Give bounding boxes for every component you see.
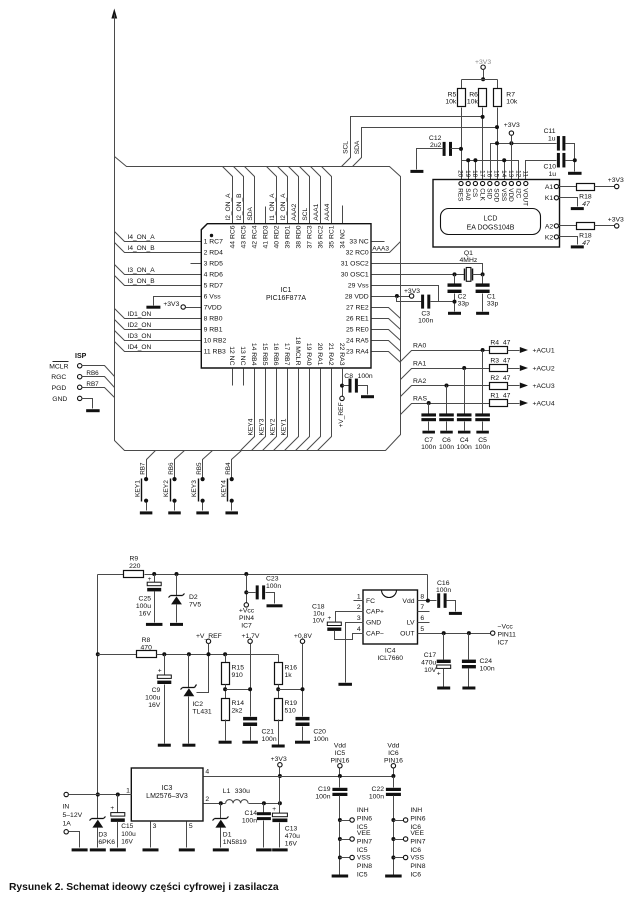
svg-text:100n: 100n bbox=[262, 736, 277, 743]
svg-text:ID4_ON: ID4_ON bbox=[128, 344, 152, 351]
svg-text:C6: C6 bbox=[442, 437, 451, 444]
resistor R2 47 bbox=[490, 383, 508, 390]
wire IC4 pin4 CAP- to C18 minus bbox=[335, 631, 364, 640]
svg-text:R18: R18 bbox=[579, 193, 592, 200]
svg-text:330u: 330u bbox=[235, 788, 250, 795]
svg-text:AAA3: AAA3 bbox=[372, 246, 389, 253]
svg-text:35 RC1: 35 RC1 bbox=[329, 225, 336, 248]
svg-text:27 RE2: 27 RE2 bbox=[346, 304, 369, 311]
svg-text:7: 7 bbox=[420, 604, 424, 611]
svg-text:R4: R4 bbox=[490, 339, 499, 346]
svg-text:220: 220 bbox=[129, 563, 141, 570]
signal arrow +ACU1 bbox=[520, 347, 528, 353]
wire pin 15 to bottom rail bbox=[252, 369, 266, 451]
LCD pin 18 CS bbox=[473, 181, 477, 185]
wire IC3 pin2 (switch node) bbox=[204, 803, 226, 805]
wire C22 to ground with taps bbox=[393, 796, 395, 875]
svg-text:11 RB3: 11 RB3 bbox=[204, 348, 226, 355]
junction RA0/C5 bbox=[481, 348, 485, 352]
terminal IN (-) bbox=[64, 830, 68, 834]
ground at IC1 pin 6 Vss bbox=[154, 297, 202, 306]
wire pin 21 to bottom rail bbox=[318, 369, 332, 451]
svg-text:14 RB4: 14 RB4 bbox=[250, 343, 257, 366]
junction RA3/C8 bbox=[340, 384, 344, 388]
svg-text:KEY4: KEY4 bbox=[220, 480, 227, 497]
svg-text:I2_ON_A: I2_ON_A bbox=[280, 193, 287, 221]
svg-text:100n: 100n bbox=[358, 373, 373, 380]
svg-text:R19: R19 bbox=[285, 700, 298, 707]
wire IN to IC3 pin1 bbox=[69, 794, 132, 796]
svg-text:CAP+: CAP+ bbox=[366, 609, 384, 616]
svg-text:31 OSC2: 31 OSC2 bbox=[341, 260, 369, 267]
wire pin 3 RD5 stub bbox=[191, 263, 202, 265]
wire pin 19 to bottom rail bbox=[296, 369, 310, 451]
wire LCD control line (RES/SA0/CS/VSS/I2C) bbox=[462, 161, 519, 182]
junction R16/R19 (+0,8V) bbox=[278, 685, 280, 699]
wire pin 18 to bottom rail bbox=[285, 369, 299, 451]
svg-text:PIN7: PIN7 bbox=[357, 838, 372, 845]
resistor R7 10k bbox=[494, 89, 502, 107]
junction D1 bbox=[219, 801, 223, 805]
resistor R14 2k2 bbox=[222, 699, 230, 721]
wire pin 20 to bottom rail bbox=[307, 369, 321, 451]
wire: +3V3 output rail bbox=[204, 776, 394, 778]
svg-text:+ACU2: +ACU2 bbox=[533, 366, 555, 373]
svg-text:ID2_ON: ID2_ON bbox=[128, 322, 152, 329]
svg-text:5 RD7: 5 RD7 bbox=[204, 282, 223, 289]
wire pin22 RA3 to C8/+V_REF bbox=[342, 369, 344, 397]
wire IC4 pin6 LV stub bbox=[418, 622, 430, 624]
svg-text:AAA1: AAA1 bbox=[313, 203, 320, 220]
ground at IN(-) bbox=[69, 832, 80, 848]
junction VDD/C3 bbox=[395, 294, 399, 298]
zener diode D2 7V5 bbox=[175, 572, 179, 576]
capacitor C20 100n bbox=[296, 717, 310, 721]
svg-text:I4_ON_A: I4_ON_A bbox=[128, 234, 156, 241]
svg-text:44 RC6: 44 RC6 bbox=[230, 225, 237, 248]
svg-text:2: 2 bbox=[205, 796, 209, 803]
ground at ISP GND bbox=[82, 399, 93, 409]
svg-text:6PK6: 6PK6 bbox=[98, 839, 115, 846]
svg-text:LM2576–3V3: LM2576–3V3 bbox=[146, 793, 188, 800]
signal arrow +ACU4 bbox=[520, 400, 528, 406]
svg-text:I1_ON_A: I1_ON_A bbox=[269, 193, 276, 221]
svg-text:Rysunek 2. Schemat ideowy częś: Rysunek 2. Schemat ideowy części cyfrowe… bbox=[9, 882, 279, 893]
svg-text:470u: 470u bbox=[285, 833, 300, 840]
svg-text:23 RA4: 23 RA4 bbox=[346, 348, 369, 355]
ground at IC3 pin5 bbox=[186, 822, 188, 848]
signal arrow +ACU2 bbox=[520, 365, 528, 371]
svg-text:100n: 100n bbox=[266, 583, 281, 590]
svg-text:100n: 100n bbox=[480, 666, 495, 673]
signal arrow +ACU3 bbox=[520, 383, 528, 389]
resistor R18 47 (backlight A2) bbox=[559, 225, 577, 227]
ground at IC3 pin3 bbox=[150, 822, 152, 848]
LCD pin 13 VDD bbox=[509, 181, 513, 185]
wire IC4 pin8 Vdd to +Vcc rail bbox=[418, 600, 437, 602]
svg-text:Vdd: Vdd bbox=[334, 743, 346, 750]
capacitor C17 470u 10V bbox=[442, 631, 446, 635]
wire IC4 pin1 stub bbox=[354, 600, 364, 602]
ground at R19 bbox=[278, 720, 280, 745]
svg-text:3: 3 bbox=[153, 823, 157, 830]
svg-text:R8: R8 bbox=[142, 637, 151, 644]
wire RE2 to bus bbox=[372, 308, 401, 319]
wire RE1 to bus bbox=[372, 319, 401, 330]
svg-text:+3V3: +3V3 bbox=[271, 756, 287, 763]
svg-text:RGC: RGC bbox=[51, 374, 66, 381]
junction SDA/SOD bbox=[495, 141, 499, 145]
svg-text:I3_ON_A: I3_ON_A bbox=[128, 267, 156, 274]
svg-text:10V: 10V bbox=[424, 667, 437, 674]
terminal GND bbox=[78, 396, 82, 400]
svg-text:PIN6: PIN6 bbox=[410, 815, 425, 822]
junction RA2/C6 bbox=[445, 384, 449, 388]
LCD pin 14 VSS bbox=[502, 181, 506, 185]
wire IC4 pin5 OUT to -Vcc bbox=[418, 633, 491, 635]
svg-text:4MHz: 4MHz bbox=[460, 257, 478, 264]
wire pin 33 NC stub bbox=[372, 241, 385, 243]
wire I4_ON_B bbox=[115, 243, 202, 253]
svg-text:+Vcc: +Vcc bbox=[239, 608, 255, 615]
svg-text:C3: C3 bbox=[421, 311, 430, 318]
svg-text:C16: C16 bbox=[437, 580, 450, 587]
svg-text:AAA4: AAA4 bbox=[324, 203, 331, 220]
wire ID4_ON bbox=[115, 342, 202, 352]
wire I3_ON_B bbox=[115, 276, 202, 286]
svg-text:SDA: SDA bbox=[247, 206, 254, 220]
svg-text:PIC16F877A: PIC16F877A bbox=[266, 295, 306, 302]
svg-text:R7: R7 bbox=[506, 91, 515, 98]
svg-text:R9: R9 bbox=[129, 555, 138, 562]
svg-text:C25: C25 bbox=[139, 595, 152, 602]
resistor R15 910 bbox=[223, 652, 227, 656]
junction VDD/C11 bbox=[509, 141, 513, 145]
svg-text:D1: D1 bbox=[223, 832, 232, 839]
svg-text:100u: 100u bbox=[145, 695, 160, 702]
svg-text:2u2: 2u2 bbox=[430, 142, 442, 149]
svg-text:25 RE0: 25 RE0 bbox=[346, 326, 369, 333]
wire IC4 pin7 stub bbox=[418, 611, 430, 613]
wire SDA from bus to pull-up/LCD SID-SOD bbox=[353, 128, 498, 167]
schottky diode D1 1N5819 bbox=[220, 804, 222, 819]
svg-text:5–12V: 5–12V bbox=[63, 812, 83, 819]
shunt regulator IC2 TL431 bbox=[187, 652, 191, 656]
wire +V_REF to rail and TL431 ref bbox=[197, 644, 209, 693]
svg-text:C14: C14 bbox=[245, 810, 258, 817]
svg-text:11: 11 bbox=[522, 171, 529, 178]
svg-text:100n: 100n bbox=[457, 444, 472, 451]
svg-text:C13: C13 bbox=[285, 825, 298, 832]
svg-text:42 RC4: 42 RC4 bbox=[252, 225, 259, 248]
capacitor C3 100n bbox=[421, 295, 424, 309]
terminal +3V3 (LCD VDD) bbox=[509, 131, 513, 135]
wire OSC2 to crystal bbox=[372, 264, 483, 275]
wire IC4 pin2 CAP+ to C18 bbox=[336, 612, 364, 622]
capacitor C16 100n bbox=[437, 593, 440, 608]
svg-text:INH: INH bbox=[410, 807, 422, 814]
resistor R9 220 bbox=[98, 574, 124, 576]
junction rail/IC5 bbox=[338, 774, 342, 778]
svg-text:17 RB7: 17 RB7 bbox=[283, 343, 290, 366]
wire ID3_ON bbox=[115, 331, 202, 341]
wire pin 39 bbox=[278, 167, 288, 224]
svg-text:16V: 16V bbox=[148, 702, 161, 709]
svg-text:+ACU3: +ACU3 bbox=[533, 383, 555, 390]
wire pin 43 bbox=[234, 167, 244, 224]
svg-text:6: 6 bbox=[420, 615, 424, 622]
svg-text:12: 12 bbox=[514, 170, 521, 178]
resistor R8 470 bbox=[98, 654, 137, 656]
svg-text:19: 19 bbox=[464, 170, 471, 178]
svg-text:KEY3: KEY3 bbox=[191, 480, 198, 497]
wire RB7 (PGD) to bus bbox=[82, 388, 115, 398]
svg-text:C4: C4 bbox=[460, 437, 469, 444]
svg-text:+ACU4: +ACU4 bbox=[533, 401, 555, 408]
svg-text:C22: C22 bbox=[372, 786, 385, 793]
svg-text:1N5819: 1N5819 bbox=[223, 839, 247, 846]
svg-text:18: 18 bbox=[471, 170, 478, 178]
svg-text:VDD: VDD bbox=[507, 188, 514, 202]
wire pin 37 bbox=[300, 167, 310, 224]
capacitor C14 100n bbox=[263, 804, 265, 813]
svg-text:IC1: IC1 bbox=[281, 287, 292, 294]
svg-text:2k2: 2k2 bbox=[232, 707, 243, 714]
terminal MCLR bbox=[78, 364, 82, 368]
svg-text:100n: 100n bbox=[369, 794, 384, 801]
svg-text:GND: GND bbox=[52, 396, 67, 403]
svg-text:1: 1 bbox=[126, 787, 130, 794]
svg-text:ID3_ON: ID3_ON bbox=[128, 333, 152, 340]
svg-text:C8: C8 bbox=[344, 373, 353, 380]
svg-text:RB7: RB7 bbox=[86, 381, 99, 388]
wire C19 to ground with taps bbox=[339, 796, 341, 875]
capacitor C22 100n bbox=[393, 777, 395, 788]
svg-text:CS: CS bbox=[471, 188, 478, 197]
svg-text:36 RC2: 36 RC2 bbox=[318, 225, 325, 248]
svg-text:R16: R16 bbox=[285, 665, 298, 672]
svg-text:100n: 100n bbox=[439, 444, 454, 451]
svg-text:SA0: SA0 bbox=[464, 188, 471, 201]
wire pin12 stub bbox=[232, 369, 234, 386]
svg-text:IN: IN bbox=[63, 804, 70, 811]
resistor R4 47 bbox=[490, 347, 508, 354]
svg-text:R2: R2 bbox=[490, 375, 499, 382]
svg-text:I2_ON_B: I2_ON_B bbox=[236, 193, 243, 221]
resistor R3 47 bbox=[490, 365, 508, 372]
svg-text:510: 510 bbox=[285, 707, 297, 714]
svg-text:C21: C21 bbox=[262, 728, 275, 735]
capacitor C10 1u bbox=[557, 153, 560, 168]
svg-text:47: 47 bbox=[582, 201, 590, 208]
svg-text:910: 910 bbox=[232, 672, 244, 679]
junction C14 bbox=[262, 801, 266, 805]
wire pin 17 to bottom rail bbox=[274, 369, 288, 451]
svg-text:IC7: IC7 bbox=[241, 623, 252, 630]
svg-text:RB6: RB6 bbox=[168, 462, 175, 475]
wire RA4 to bus bbox=[372, 352, 401, 363]
terminal -Vcc PIN11 IC7 bbox=[491, 631, 495, 635]
svg-text:16V: 16V bbox=[121, 839, 133, 846]
svg-text:RAS: RAS bbox=[413, 396, 427, 403]
svg-text:21 RA2: 21 RA2 bbox=[327, 343, 334, 366]
svg-text:R5: R5 bbox=[448, 91, 457, 98]
junction C13/output bbox=[278, 801, 282, 805]
svg-text:PIN7: PIN7 bbox=[410, 838, 425, 845]
svg-text:+: + bbox=[328, 615, 332, 622]
svg-text:1u: 1u bbox=[548, 136, 556, 143]
svg-text:I4_ON_B: I4_ON_B bbox=[128, 245, 156, 252]
svg-text:SCL: SCL bbox=[343, 141, 350, 154]
junction +3V3/rail bbox=[278, 774, 282, 778]
ground at K1 bbox=[559, 198, 578, 207]
key button KEY1 bbox=[147, 451, 156, 478]
svg-text:22 RA3: 22 RA3 bbox=[338, 343, 345, 366]
svg-text:C10: C10 bbox=[544, 164, 557, 171]
svg-text:ISP: ISP bbox=[75, 353, 87, 360]
svg-text:C20: C20 bbox=[313, 728, 326, 735]
terminal +3V3 (A2) bbox=[615, 224, 619, 228]
svg-text:16 RB6: 16 RB6 bbox=[272, 343, 279, 366]
svg-text:15 RB5: 15 RB5 bbox=[261, 343, 268, 366]
svg-text:1k: 1k bbox=[285, 672, 293, 679]
svg-text:AAA2: AAA2 bbox=[291, 203, 298, 220]
svg-text:VEE: VEE bbox=[410, 830, 424, 837]
wire +3V3 to output rail bbox=[279, 768, 281, 804]
svg-text:4: 4 bbox=[357, 626, 361, 633]
svg-text:LV: LV bbox=[407, 620, 415, 627]
capacitor C11 1u bbox=[557, 136, 560, 151]
wire pin13 stub bbox=[243, 369, 245, 386]
svg-text:9 RB1: 9 RB1 bbox=[204, 326, 223, 333]
svg-text:A2: A2 bbox=[545, 223, 554, 230]
capacitor C12 2u2 bbox=[443, 142, 446, 156]
svg-text:100n: 100n bbox=[242, 817, 257, 824]
svg-text:VSS: VSS bbox=[500, 188, 507, 201]
wire OSC1 to crystal bbox=[372, 274, 465, 276]
wire Vss pin29 to ground rail bbox=[372, 286, 439, 302]
svg-text:1A: 1A bbox=[63, 821, 72, 828]
capacitor C1 33p bbox=[482, 275, 484, 284]
wire pin 44 bbox=[223, 167, 233, 224]
+3V3 terminal at IC1 pin 7 VDD bbox=[181, 305, 185, 309]
svg-text:+3V3: +3V3 bbox=[608, 177, 624, 184]
terminal +3V3 (A1) bbox=[615, 184, 619, 188]
terminal VEE PIN7 IC6 bbox=[391, 837, 395, 841]
terminal PGD bbox=[78, 385, 82, 389]
LCD pin 20 RES bbox=[459, 181, 463, 185]
svg-text:C19: C19 bbox=[318, 786, 331, 793]
svg-text:L1: L1 bbox=[223, 788, 231, 795]
ground at K2 bbox=[559, 237, 578, 245]
wire MCLR to bus bbox=[82, 366, 115, 377]
wire I3_ON_A bbox=[115, 265, 202, 275]
wire: +Vcc rail bbox=[145, 574, 428, 576]
svg-text:C11: C11 bbox=[544, 128, 556, 135]
wire RAS bbox=[401, 404, 490, 415]
wire pin 16 to bottom rail bbox=[263, 369, 277, 451]
key button KEY3 bbox=[203, 451, 213, 478]
wire pin 35 bbox=[322, 167, 332, 224]
svg-text:16V: 16V bbox=[139, 610, 152, 617]
svg-text:6 Vss: 6 Vss bbox=[204, 293, 222, 300]
svg-text:D2: D2 bbox=[189, 594, 198, 601]
capacitor C25 100u 16V bbox=[152, 572, 156, 576]
svg-text:10k: 10k bbox=[506, 98, 518, 105]
ground at C12 bbox=[410, 170, 423, 173]
capacitor C15 100u 16V bbox=[117, 795, 119, 813]
resistor R1 47 bbox=[490, 400, 508, 407]
terminal VSS PIN8 IC6 bbox=[391, 856, 395, 860]
svg-text:33p: 33p bbox=[487, 301, 499, 308]
svg-text:+3V3: +3V3 bbox=[608, 216, 624, 223]
svg-text:VOUT: VOUT bbox=[522, 188, 529, 206]
svg-text:47: 47 bbox=[503, 357, 511, 364]
svg-text:K1: K1 bbox=[545, 195, 554, 202]
svg-text:KEY3: KEY3 bbox=[259, 418, 266, 435]
svg-text:Vdd: Vdd bbox=[402, 598, 414, 605]
svg-text:R1: R1 bbox=[490, 392, 499, 399]
svg-text:47: 47 bbox=[503, 375, 511, 382]
svg-text:33p: 33p bbox=[458, 301, 470, 308]
svg-text:20: 20 bbox=[457, 170, 464, 178]
svg-text:CAP−: CAP− bbox=[366, 631, 384, 638]
svg-text:3: 3 bbox=[357, 615, 361, 622]
wire pin 36 bbox=[311, 167, 321, 224]
svg-text:Vdd: Vdd bbox=[387, 743, 399, 750]
transil D3 6PK6 bbox=[92, 818, 104, 820]
svg-text:FC: FC bbox=[366, 598, 375, 605]
wire RE0 to bus bbox=[372, 330, 401, 341]
terminal +Vcc PIN4 IC7 bbox=[244, 603, 248, 607]
svg-text:8: 8 bbox=[420, 594, 424, 601]
capacitor C19 100n bbox=[339, 777, 341, 788]
svg-text:2: 2 bbox=[357, 604, 361, 611]
svg-text:26 RE1: 26 RE1 bbox=[346, 315, 369, 322]
junction RA1/C4 bbox=[462, 366, 466, 370]
wire I4_ON_A bbox=[115, 232, 202, 242]
terminal IN (+) bbox=[64, 792, 68, 796]
svg-text:EA DOGS104B: EA DOGS104B bbox=[467, 225, 515, 232]
svg-text:100n: 100n bbox=[315, 794, 330, 801]
junction SCL/R6 bbox=[481, 115, 485, 119]
svg-text:18 MCLR: 18 MCLR bbox=[294, 337, 301, 366]
svg-text:C7: C7 bbox=[424, 437, 433, 444]
svg-text:VSS: VSS bbox=[357, 855, 371, 862]
LCD pin 12 I2C bbox=[517, 181, 521, 185]
svg-text:+3V3: +3V3 bbox=[163, 301, 179, 308]
svg-text:1: 1 bbox=[357, 594, 361, 601]
wire RA0 bbox=[401, 351, 490, 362]
wire pin 41 stub bbox=[265, 207, 267, 224]
wire RA1 bbox=[401, 369, 490, 380]
wire pin 14 to bottom rail bbox=[241, 369, 255, 451]
resistor R5 10k bbox=[458, 89, 466, 107]
svg-text:IC2: IC2 bbox=[192, 701, 203, 708]
svg-text:OUT: OUT bbox=[400, 631, 414, 638]
svg-text:RA2: RA2 bbox=[413, 378, 426, 385]
svg-text:100n: 100n bbox=[436, 587, 451, 594]
svg-text:16V: 16V bbox=[285, 840, 298, 847]
svg-text:8 RB0: 8 RB0 bbox=[204, 315, 223, 322]
LCD pin A1 bbox=[554, 184, 558, 188]
svg-text:GND: GND bbox=[366, 620, 381, 627]
LCD pin 11 VOUT bbox=[524, 181, 528, 185]
svg-text:10 RB2: 10 RB2 bbox=[204, 337, 227, 344]
svg-text:C2: C2 bbox=[458, 294, 467, 301]
svg-text:PIN11: PIN11 bbox=[498, 631, 517, 638]
svg-text:43 RC5: 43 RC5 bbox=[241, 225, 248, 248]
